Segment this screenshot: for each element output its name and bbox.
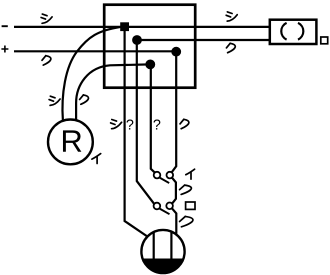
wire: shi drop from square to lamp bbox=[125, 27, 148, 237]
label shi (R left wire) bbox=[49, 96, 60, 105]
outlet paren right bbox=[298, 23, 303, 40]
outlet box bbox=[270, 20, 317, 44]
label shi (left, on minus wire) bbox=[41, 14, 52, 23]
plus sign (source +) bbox=[1, 46, 8, 53]
switch I bbox=[159, 178, 169, 184]
label ku (below box) bbox=[180, 119, 189, 128]
buzzer internal lead left bbox=[153, 232, 155, 258]
label ro (switch 2) bbox=[186, 202, 195, 209]
outlet paren left bbox=[281, 23, 286, 40]
switch RO bbox=[159, 209, 169, 215]
wire: drop from ku-curve dot to switch I bbox=[151, 64, 155, 172]
terminal square on minus wire bbox=[120, 22, 129, 31]
label ku (below switch 2) bbox=[180, 216, 193, 226]
label shi (outlet wire) bbox=[226, 12, 237, 21]
wire: neutral (minus) line to outlet bbox=[14, 26, 271, 28]
label ro (outlet) bbox=[321, 37, 328, 44]
wire: drop from outlet dot to switch RO bbox=[137, 40, 155, 204]
joint dot on plus wire bbox=[171, 47, 181, 57]
label ku (left, under plus wire) bbox=[42, 56, 51, 65]
label ? (wire 3) bbox=[153, 119, 160, 129]
buzzer body bbox=[141, 230, 184, 273]
label i (lamp R) bbox=[92, 154, 101, 164]
junction box bbox=[104, 5, 195, 88]
joint dot to outlet wire bbox=[132, 35, 142, 45]
label shi (below box) bbox=[111, 120, 122, 129]
joint dot on ku curve bbox=[145, 60, 155, 70]
wire: outlet second wire from dot bbox=[138, 39, 271, 41]
label ku (outlet wire) bbox=[226, 43, 235, 52]
wire: hot (plus) line to junction dot bbox=[14, 50, 176, 52]
wire: ku drop from plus dot to switch I bbox=[172, 52, 176, 172]
label i (switch 1) bbox=[186, 169, 195, 179]
buzzer filled segment bbox=[143, 259, 183, 273]
label ku (between) bbox=[180, 185, 192, 194]
buzzer internal lead right bbox=[170, 232, 172, 259]
minus sign (source -) bbox=[2, 25, 8, 27]
label ku (R right wire) bbox=[80, 95, 89, 104]
lamp receptacle R bbox=[48, 119, 93, 164]
wire: shi curve from lamp R to square terminal bbox=[62, 27, 120, 121]
wire: ku curve from lamp R to joint dot bbox=[76, 64, 150, 120]
label ? (wire 2) bbox=[126, 119, 133, 129]
